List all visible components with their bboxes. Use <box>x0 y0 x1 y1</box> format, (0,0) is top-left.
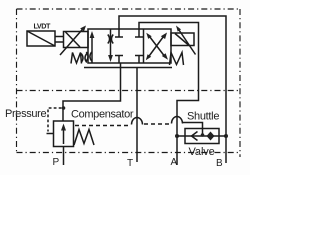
compensator pilot dashed <box>48 108 62 132</box>
junction dot B <box>224 134 228 138</box>
wire B: valve top to shuttle right <box>119 16 226 163</box>
compensator spring <box>74 130 94 146</box>
pilot orifice <box>81 54 87 63</box>
boundary dash-dot top <box>17 8 241 10</box>
LS hop over T <box>132 118 143 125</box>
wire A: valve top to shuttle left <box>139 23 199 166</box>
boundary dash-dot right <box>239 9 241 157</box>
compensator arrow <box>63 130 65 144</box>
pilot valve box <box>64 32 89 48</box>
shuttle midline <box>177 135 226 137</box>
svg-text:B: B <box>216 158 223 169</box>
boundary dash-dot left <box>16 9 18 153</box>
envelope bottom rail <box>84 67 172 69</box>
main valve divider <box>143 29 145 63</box>
LS dashed line <box>75 125 129 127</box>
crossed arrow 2 (TL to BR, both heads) <box>150 37 165 56</box>
up arrow path <box>91 37 93 63</box>
spring right <box>170 53 184 66</box>
svg-text:Valve: Valve <box>189 146 215 158</box>
boundary dash-dot bottom <box>17 152 239 154</box>
LS hop over A <box>172 117 183 124</box>
junction dot A <box>175 134 179 138</box>
svg-text:Pressure: Pressure <box>5 108 46 120</box>
orifice lower left <box>86 52 91 61</box>
LVDT diagonal <box>27 31 55 46</box>
main valve body <box>88 29 171 63</box>
solenoid box <box>171 33 194 46</box>
shuttle valve box <box>185 129 219 144</box>
solenoid X backslash <box>175 34 189 46</box>
down arrow path <box>110 29 112 56</box>
solenoid proportional arrow <box>178 29 196 55</box>
junction dot pilot tap <box>62 106 66 110</box>
shuttle ball <box>201 133 205 137</box>
LS to shuttle <box>183 123 203 135</box>
orifice upper <box>108 35 113 44</box>
svg-text:P: P <box>53 157 60 168</box>
LS dashed mid <box>144 123 170 125</box>
svg-text:A: A <box>171 157 178 168</box>
blocked port top-left <box>115 29 123 37</box>
blocked port bottom-left <box>115 56 123 64</box>
pilot valve X backslash <box>66 32 81 47</box>
boundary dash-dot middle divider <box>17 90 241 92</box>
svg-text:LVDT: LVDT <box>34 22 51 31</box>
shuttle left seat chevron <box>192 132 198 141</box>
svg-text:Shuttle: Shuttle <box>187 111 219 123</box>
compensator P stem <box>63 147 65 166</box>
LVDT sensor body <box>27 31 55 46</box>
pilot spring left <box>71 53 82 64</box>
blocked port bottom-right <box>135 56 143 64</box>
wire P: rail to compensator <box>63 64 121 122</box>
LVDT connector neck <box>55 37 64 43</box>
shuttle right poppet diamond <box>207 132 215 141</box>
svg-text:Compensator: Compensator <box>71 109 134 121</box>
crossed arrow 1 (BL to TR, both heads) <box>148 37 164 58</box>
wire T: rail to tank <box>136 68 138 163</box>
svg-text:T: T <box>127 158 133 169</box>
blocked port top-right <box>135 29 143 37</box>
pilot valve proportional arrow <box>60 27 85 55</box>
compensator box <box>54 121 74 147</box>
